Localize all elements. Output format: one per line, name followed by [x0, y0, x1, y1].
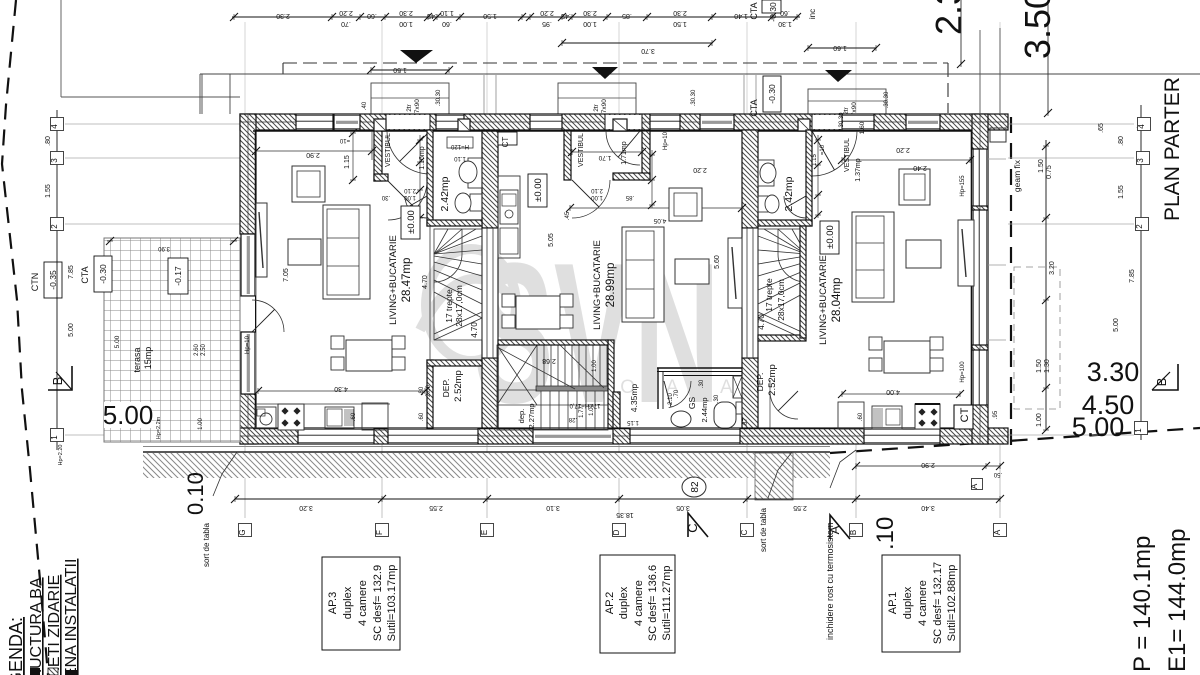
svg-text:.80: .80 — [45, 136, 52, 146]
svg-text:.60: .60 — [780, 9, 790, 16]
svg-text:1: 1 — [50, 435, 59, 440]
boxed level -0.17 — [168, 258, 188, 294]
svg-text:A: A — [970, 483, 979, 489]
svg-text:±0.00: ±0.00 — [533, 178, 544, 202]
svg-text:D: D — [612, 529, 621, 535]
svg-text:1.00: 1.00 — [198, 418, 204, 430]
section mark B left — [48, 366, 72, 390]
building outer top wall — [240, 114, 1008, 130]
AP1 TV unit — [958, 220, 974, 286]
svg-text:A: A — [827, 525, 842, 534]
AP3 sink — [255, 407, 276, 428]
svg-text:15mp: 15mp — [143, 347, 153, 370]
AP1 dep walls — [758, 335, 806, 341]
AP2 stair walls — [608, 340, 614, 428]
svg-text:.30: .30 — [381, 194, 390, 200]
svg-text:.28: .28 — [568, 416, 577, 422]
AP2 coffee table — [675, 259, 709, 284]
svg-text:28.47mp: 28.47mp — [401, 258, 413, 303]
svg-text:.45: .45 — [561, 12, 571, 19]
svg-text:LEGENDA:: LEGENDA: — [6, 617, 26, 675]
AP2 info box — [600, 555, 675, 653]
svg-text:1.55: 1.55 — [45, 184, 52, 198]
svg-text:.45: .45 — [427, 12, 437, 19]
svg-text:.10: .10 — [872, 517, 899, 550]
svg-text:28.99mp: 28.99mp — [605, 263, 617, 308]
svg-text:2: 2 — [50, 224, 59, 229]
property boundary dashed bottom right — [830, 428, 1200, 453]
svg-text:terasa: terasa — [132, 347, 142, 372]
AP2 stairs straight run — [497, 345, 608, 430]
AP2 GS door — [669, 381, 691, 408]
interior dim line AP1 2.40 — [842, 159, 970, 161]
party wall 2 — [742, 130, 758, 228]
AP3 bath door — [405, 196, 427, 218]
AP1 bath fixtures sink — [758, 160, 774, 186]
ground line — [143, 446, 830, 448]
svg-text:VESTIBUL: VESTIBUL — [844, 138, 851, 172]
AP1 CT boxed — [954, 405, 973, 429]
svg-text:5.00: 5.00 — [68, 323, 75, 337]
svg-text:.60: .60 — [419, 412, 425, 421]
svg-text:Hp=2.20: Hp=2.20 — [58, 445, 64, 466]
right chains — [1140, 105, 1142, 440]
building left wall — [240, 114, 256, 234]
svg-text:1.40: 1.40 — [734, 12, 748, 19]
svg-text:F: F — [375, 530, 384, 535]
svg-text:2.20: 2.20 — [540, 9, 554, 16]
svg-text:2.10: 2.10 — [591, 187, 603, 193]
svg-text:CTA: CTA — [80, 266, 90, 283]
svg-text:5.00: 5.00 — [1072, 412, 1125, 442]
bottom grid bubbles — [239, 524, 252, 537]
svg-text:2.30: 2.30 — [928, 0, 969, 35]
AP2 vestibule dim 1.70 — [572, 151, 642, 153]
svg-text:B: B — [1154, 378, 1169, 387]
svg-text:2.30: 2.30 — [583, 9, 597, 16]
svg-text:PERETI ZIDARIE: PERETI ZIDARIE — [46, 575, 63, 675]
AP3 vestibule walls — [374, 131, 382, 181]
AP2 armchair — [669, 188, 702, 221]
svg-text:G: G — [238, 529, 247, 535]
AP1 top wall column box — [798, 119, 810, 131]
top-right corner detail — [990, 128, 1006, 142]
AP3 vestibule inner door — [388, 181, 427, 220]
svg-text:CT: CT — [959, 407, 971, 422]
svg-text:3.50: 3.50 — [1017, 0, 1058, 59]
svg-text:18.35: 18.35 — [616, 511, 634, 518]
inner face emphasised — [253, 130, 972, 132]
svg-text:.85: .85 — [622, 12, 632, 19]
svg-text:.95: .95 — [542, 20, 552, 27]
wall midlines — [240, 121, 1008, 123]
svg-text:2.52mp: 2.52mp — [453, 370, 464, 402]
svg-text:1.10: 1.10 — [454, 155, 466, 161]
svg-text:LIVING+BUCATARIE: LIVING+BUCATARIE — [818, 255, 829, 345]
AP2 GS walls thin — [657, 367, 742, 369]
svg-text:CT: CT — [501, 137, 510, 148]
AP3 TV unit — [256, 203, 267, 277]
svg-text:inchidere rost cu termosistem: inchidere rost cu termosistem — [825, 522, 835, 640]
property boundary dashed left — [2, 0, 48, 675]
svg-text:duplex: duplex — [342, 586, 354, 619]
AP2 kitchen counter — [498, 176, 520, 258]
AP3 WC — [470, 194, 482, 211]
svg-text:2.55: 2.55 — [793, 504, 807, 511]
svg-text:Hp=2.2m: Hp=2.2m — [156, 416, 162, 439]
svg-text:0.10: 0.10 — [183, 472, 208, 515]
svg-text:1.77: 1.77 — [579, 406, 585, 418]
AP2 vestibule inner door arc — [572, 180, 610, 218]
svg-text:4: 4 — [50, 124, 59, 129]
svg-text:Hp=155: Hp=155 — [960, 175, 966, 197]
svg-text:1.30: 1.30 — [1044, 359, 1051, 373]
svg-text:4: 4 — [1137, 124, 1146, 129]
top dim row2 3.70 — [562, 42, 712, 44]
svg-text:AP.2: AP.2 — [604, 592, 616, 614]
svg-text:7.05: 7.05 — [283, 268, 290, 282]
svg-text:5.60: 5.60 — [714, 255, 721, 269]
svg-text:7.85: 7.85 — [68, 265, 75, 279]
svg-text:1.00: 1.00 — [589, 404, 595, 416]
dashed 3.20 box right — [1014, 267, 1060, 409]
soil pier below AP1 — [755, 453, 793, 500]
entrance steps AP1 — [808, 89, 886, 114]
svg-text:2.00: 2.00 — [426, 385, 432, 397]
svg-text:1.50: 1.50 — [1038, 159, 1045, 173]
AP3 dishwasher — [325, 407, 354, 428]
svg-text:-0.30: -0.30 — [98, 264, 108, 284]
right wall glazing geam fix — [972, 149, 988, 206]
svg-text:2.20: 2.20 — [896, 146, 910, 153]
AP2 shaft with X — [733, 376, 742, 398]
svg-text:5.05: 5.05 — [548, 233, 555, 247]
svg-text:3.20: 3.20 — [299, 504, 313, 511]
svg-text:2.90: 2.90 — [921, 461, 935, 468]
svg-text:-0.17: -0.17 — [173, 266, 183, 286]
AP3 sofa — [323, 205, 370, 299]
svg-text:2.42mp: 2.42mp — [783, 176, 795, 211]
svg-text:Sutil=103.17mp: Sutil=103.17mp — [386, 565, 398, 642]
watermark SVN logo — [420, 222, 740, 445]
svg-text:2tr: 2tr — [406, 103, 413, 111]
svg-text:2.20: 2.20 — [693, 166, 707, 173]
svg-text:=10: =10 — [339, 137, 350, 143]
svg-text:28.04mp: 28.04mp — [831, 278, 843, 323]
svg-text:1.00: 1.00 — [399, 20, 413, 27]
svg-text:2.55: 2.55 — [429, 504, 443, 511]
svg-text:2.30: 2.30 — [276, 12, 290, 19]
svg-text:E: E — [480, 530, 489, 535]
svg-text:1.30: 1.30 — [778, 20, 792, 27]
AP2 WC — [736, 402, 742, 414]
AP1 dishwasher — [872, 406, 902, 429]
AP2 TV unit — [728, 238, 742, 308]
svg-text:.60: .60 — [367, 12, 377, 19]
svg-text:3.05: 3.05 — [676, 504, 690, 511]
interior dim line AP2 4.05 — [570, 207, 742, 209]
entrance steps AP3 — [371, 83, 449, 114]
AP1 bathroom walls — [806, 130, 812, 226]
svg-text:A: A — [993, 529, 1002, 535]
AP1 fridge — [838, 402, 864, 429]
AP2 entry column box — [613, 119, 627, 131]
svg-text:1.50: 1.50 — [1036, 359, 1043, 373]
left wall glazing and terrace door — [240, 234, 256, 296]
AP2 dining table — [516, 296, 560, 329]
svg-text:VESTIBUL: VESTIBUL — [385, 133, 392, 167]
AP3 kitchen counter — [256, 403, 390, 405]
svg-text:1.16mp: 1.16mp — [419, 146, 426, 169]
left grid bubbles and chain — [56, 110, 58, 450]
svg-text:Hp=10: Hp=10 — [663, 131, 669, 150]
svg-text:sort de tabla: sort de tabla — [202, 522, 211, 567]
svg-text:2.52mp: 2.52mp — [767, 364, 778, 396]
svg-text:Hp=100: Hp=100 — [960, 361, 966, 383]
svg-text:-0.35: -0.35 — [48, 270, 58, 290]
section A marker — [830, 515, 850, 539]
svg-text:.40: .40 — [362, 101, 368, 110]
svg-text:4.70: 4.70 — [470, 322, 479, 338]
svg-text:.65: .65 — [1098, 123, 1105, 133]
entrance door arcs — [387, 131, 430, 174]
svg-text:.30.30: .30.30 — [884, 91, 890, 108]
AP3 bath fixtures: sink — [468, 158, 482, 188]
svg-text:3.20: 3.20 — [1049, 261, 1056, 275]
soil hatch strip — [143, 453, 830, 478]
svg-text:C: C — [685, 523, 700, 532]
AP3 dep wall — [427, 360, 433, 428]
AP1 stove — [915, 404, 940, 429]
AP3 stairs winder — [434, 229, 482, 340]
svg-text:.30.30: .30.30 — [436, 89, 442, 106]
svg-text:4.05: 4.05 — [653, 217, 666, 224]
interior vertical dim chains — [419, 135, 421, 222]
party wall projection lines — [483, 75, 485, 114]
AP3 top wall column boxes — [374, 119, 386, 131]
svg-text:H=120: H=120 — [450, 143, 469, 149]
AP1 dep door arc — [770, 391, 798, 419]
AP2 sofa — [622, 227, 664, 322]
svg-text:4 camere: 4 camere — [917, 580, 929, 626]
building bottom wall — [240, 428, 1008, 444]
svg-text:1.00: 1.00 — [1036, 413, 1043, 427]
AP3 coffee table — [288, 239, 321, 265]
svg-text:-0.30: -0.30 — [768, 2, 778, 22]
svg-text:2.40: 2.40 — [913, 164, 927, 171]
svg-text:1.50: 1.50 — [673, 20, 687, 27]
dim 2.90 +.50 — [856, 465, 1000, 467]
svg-text:LIVING+BUCATARIE: LIVING+BUCATARIE — [388, 235, 399, 325]
svg-text:PLAN PARTER: PLAN PARTER — [1161, 77, 1184, 221]
svg-text:1.55: 1.55 — [1118, 185, 1125, 199]
svg-text:.60: .60 — [858, 412, 864, 421]
svg-text:1.00: 1.00 — [591, 194, 603, 200]
svg-text:.70: .70 — [674, 389, 680, 398]
svg-text:duplex: duplex — [618, 586, 630, 619]
svg-text:sort de tabla: sort de tabla — [759, 507, 768, 552]
party wall 1 — [482, 130, 498, 228]
top dimension chain — [232, 16, 800, 18]
svg-text:C: C — [740, 529, 749, 535]
roof overhang dashed — [283, 62, 948, 64]
svg-text:SC desf= 136.6: SC desf= 136.6 — [647, 565, 659, 641]
AP1 bath door — [784, 196, 806, 218]
AP2 vestibule walls — [564, 131, 571, 180]
AP1 armchair — [899, 169, 930, 205]
svg-text:AP.3: AP.3 — [327, 592, 339, 614]
svg-text:.80: .80 — [1118, 136, 1125, 146]
entrance door gaps top wall — [386, 115, 430, 129]
terrace tiles — [104, 238, 240, 442]
big 5.00 left — [104, 402, 152, 428]
svg-text:1: 1 — [1134, 428, 1143, 433]
svg-text:GS: GS — [687, 397, 697, 410]
svg-text:2.60: 2.60 — [194, 344, 200, 356]
svg-text:CTN: CTN — [30, 273, 40, 292]
AP3 armchair — [292, 166, 325, 202]
entrance steps AP2 — [558, 83, 636, 114]
AP1 WC — [758, 196, 768, 212]
svg-text:4.70: 4.70 — [757, 314, 766, 330]
AP1 info box — [882, 555, 960, 652]
svg-text:0.75: 0.75 — [1046, 165, 1053, 179]
svg-text:2tr: 2tr — [593, 103, 600, 111]
svg-text:3.90: 3.90 — [158, 245, 170, 251]
building right wall — [972, 114, 988, 444]
svg-text:SC desf= 132.17: SC desf= 132.17 — [932, 562, 944, 644]
AP3 fridge — [362, 403, 388, 430]
svg-text:2.10: 2.10 — [404, 187, 416, 193]
svg-text:CTA: CTA — [749, 99, 759, 116]
svg-text:VESTIBUL: VESTIBUL — [578, 133, 585, 167]
AP1 coffee table — [906, 240, 941, 268]
svg-text:Hp=10: Hp=10 — [245, 335, 251, 354]
AP3 stove — [278, 404, 304, 430]
entrance arrow AP1 — [825, 70, 852, 82]
svg-text:.85: .85 — [625, 194, 634, 200]
AP2 CT label — [498, 132, 517, 145]
svg-text:4.35mp: 4.35mp — [629, 384, 639, 413]
svg-text:5.00: 5.00 — [114, 335, 121, 348]
svg-text:2.90: 2.90 — [306, 151, 320, 158]
bottom dim chain — [235, 498, 1000, 500]
svg-text:AP.1: AP.1 — [887, 592, 899, 614]
svg-text:3: 3 — [1136, 158, 1145, 163]
svg-text:17 trepte: 17 trepte — [444, 289, 454, 323]
neighbour site line top left — [60, 0, 62, 97]
svg-text:5.00: 5.00 — [1113, 318, 1120, 332]
svg-text:DEP.: DEP. — [441, 379, 451, 398]
svg-text:17 trepte: 17 trepte — [764, 278, 774, 312]
svg-text:1.00: 1.00 — [592, 360, 598, 372]
interior dim line 2.90 AP3 — [256, 150, 372, 152]
svg-text:1.15: 1.15 — [344, 155, 351, 169]
svg-text:STRUCTURA BA: STRUCTURA BA — [28, 577, 45, 675]
svg-text:dep.: dep. — [517, 409, 526, 424]
svg-text:.70: .70 — [341, 20, 351, 27]
svg-text:1.87: 1.87 — [743, 418, 749, 430]
svg-text:-0.30: -0.30 — [767, 84, 777, 104]
windows in top wall — [296, 114, 333, 130]
AP2 vestibule door arc — [606, 131, 640, 165]
svg-text:.95: .95 — [993, 410, 999, 419]
svg-text:±0.00: ±0.00 — [406, 210, 417, 234]
svg-text:.60: .60 — [351, 412, 357, 421]
svg-text:=10: =10 — [820, 144, 826, 155]
svg-text:geam fix: geam fix — [1012, 159, 1022, 192]
svg-text:1.71mp: 1.71mp — [621, 141, 628, 164]
svg-text:.30: .30 — [714, 394, 720, 403]
entrance arrow AP3 — [400, 50, 433, 63]
svg-text:1.37mp: 1.37mp — [855, 158, 862, 181]
AP3 dining table — [346, 340, 392, 371]
AP2 GS sink — [671, 411, 691, 427]
svg-text:1.15: 1.15 — [627, 419, 639, 425]
svg-text:Sutil=111.27mp: Sutil=111.27mp — [661, 565, 673, 640]
section mark B right — [1152, 364, 1178, 390]
AP3 info box — [322, 557, 400, 650]
svg-text:1.60: 1.60 — [859, 121, 866, 134]
svg-text:3.40: 3.40 — [921, 504, 935, 511]
svg-text:.50: .50 — [993, 471, 1002, 477]
svg-text:P = 140.1mp: P = 140.1mp — [1129, 536, 1156, 672]
axis lines — [65, 123, 240, 125]
svg-text:1.60: 1.60 — [833, 44, 847, 51]
svg-text:1.50: 1.50 — [483, 12, 497, 19]
svg-text:28x17,0cm: 28x17,0cm — [776, 279, 786, 321]
svg-text:2.27mp: 2.27mp — [527, 403, 536, 428]
svg-text:2.42mp: 2.42mp — [439, 176, 451, 211]
svg-text:B: B — [50, 377, 65, 386]
svg-text:30.30: 30.30 — [839, 112, 845, 128]
svg-text:2.68: 2.68 — [542, 357, 556, 364]
svg-text:3.70: 3.70 — [641, 47, 655, 54]
AP2 corridor wall pier — [613, 392, 620, 428]
canopy front line — [200, 73, 1200, 75]
svg-text:2.50: 2.50 — [201, 344, 207, 356]
svg-text:duplex: duplex — [902, 586, 914, 619]
svg-text:2.30: 2.30 — [673, 9, 687, 16]
svg-text:1.50: 1.50 — [393, 66, 407, 73]
AP3 bathroom wall — [427, 130, 433, 226]
svg-text:3: 3 — [50, 158, 59, 163]
svg-text:.30.30: .30.30 — [691, 89, 697, 106]
svg-text:Sutil=102.88mp: Sutil=102.88mp — [946, 565, 958, 642]
svg-text:82: 82 — [690, 481, 701, 493]
svg-text:2.44mp: 2.44mp — [700, 397, 709, 422]
svg-text:2.30: 2.30 — [399, 9, 413, 16]
svg-text:B: B — [849, 530, 858, 535]
windows in bottom wall — [298, 428, 374, 444]
svg-text:CTA: CTA — [749, 2, 759, 19]
svg-text:1.70: 1.70 — [598, 154, 611, 161]
svg-text:SC desf= 132.9: SC desf= 132.9 — [372, 565, 384, 641]
svg-text:1.00: 1.00 — [583, 20, 597, 27]
legend — [6, 559, 80, 675]
detail marker 82 — [682, 477, 706, 497]
svg-text:4 camere: 4 camere — [357, 580, 369, 626]
svg-text:3.30: 3.30 — [1087, 357, 1140, 387]
svg-text:7.85: 7.85 — [1129, 269, 1136, 283]
AP1 dining table — [884, 341, 930, 373]
svg-text:.45: .45 — [565, 211, 571, 220]
AP1 sofa — [852, 212, 894, 302]
svg-text:.30: .30 — [699, 379, 705, 388]
svg-text:4 camere: 4 camere — [633, 580, 645, 626]
svg-text:.80: .80 — [419, 386, 425, 395]
svg-text:LIVING+BUCATARIE: LIVING+BUCATARIE — [592, 240, 603, 330]
